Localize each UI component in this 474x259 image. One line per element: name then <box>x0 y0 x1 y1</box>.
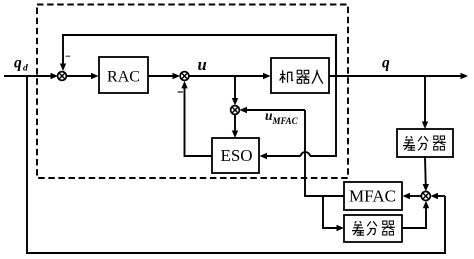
wire: J1 to RAC <box>67 75 96 77</box>
block MFAC <box>344 182 402 210</box>
wire: differentiator 2 output up into J4 <box>402 205 426 229</box>
glyph 差 (1) <box>403 136 415 150</box>
glyph 人 <box>312 70 323 84</box>
dashed boundary box <box>37 5 348 179</box>
summing junction J2 <box>180 72 189 81</box>
glyph 分 (1) <box>418 136 428 150</box>
summing junction J3 <box>231 106 240 115</box>
wire: J3 down into ESO <box>234 114 236 134</box>
wire: right feedback into J4 <box>435 195 446 197</box>
glyph 分 (2) <box>367 221 377 235</box>
wire: ESO output up into J2 <box>185 85 213 156</box>
glyph 差 (2) <box>352 221 364 235</box>
glyph 器 <box>297 70 310 83</box>
summing junction J1 <box>58 72 67 81</box>
svg-text:RAC: RAC <box>107 69 140 86</box>
wire: q_d branch down left side <box>27 76 445 253</box>
wire: MFAC output to u_MFAC vertical <box>305 110 344 196</box>
svg-text:MFAC: MFAC <box>272 116 299 126</box>
wire: J2 to robot <box>189 75 267 77</box>
block robot 机器人 <box>271 58 329 93</box>
block RAC <box>99 57 148 93</box>
svg-text:MFAC: MFAC <box>349 187 396 206</box>
block differentiator 2 差分器 <box>344 215 402 242</box>
wire: q_d input line <box>4 75 54 77</box>
svg-text:q: q <box>14 55 22 72</box>
wire: u branch down to J3 <box>234 76 236 101</box>
wire: q branch down at x=336 to ESO input <box>310 35 336 156</box>
svg-text:d: d <box>23 64 28 74</box>
wire: differentiator 1 to J4 <box>424 157 427 188</box>
glyph 器 (2) <box>382 221 395 235</box>
block differentiator 1 差分器 <box>397 129 453 157</box>
wire: robot output q line <box>329 75 464 77</box>
wire: RAC to J2 <box>148 75 176 77</box>
wire: q branch down to differentiator 1 <box>424 76 426 125</box>
block ESO <box>212 138 259 173</box>
wire: branch down into differentiator 2 <box>323 196 340 228</box>
glyph 机 <box>280 70 293 83</box>
wire: u_MFAC into J3 <box>244 109 306 111</box>
wire: top feedback line <box>63 35 336 76</box>
wire: J4 to MFAC <box>406 195 421 197</box>
summing junction J4 <box>421 192 430 201</box>
minus sign at J1 <box>66 55 71 57</box>
svg-text:q: q <box>382 55 390 72</box>
svg-text:u: u <box>198 55 207 74</box>
svg-text:ESO: ESO <box>220 146 252 165</box>
wire hop over u_MFAC line <box>301 152 310 156</box>
glyph 器 (1) <box>433 136 446 150</box>
minus sign at J2 <box>178 91 184 93</box>
